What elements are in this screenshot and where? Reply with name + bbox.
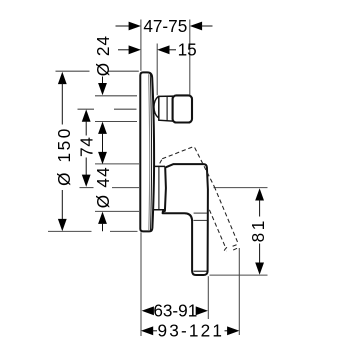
diverter knob head <box>173 95 192 122</box>
extension line: body top (y=163.9) <box>95 163 139 165</box>
diverter knob cylinder <box>159 96 173 121</box>
svg-text:15: 15 <box>178 40 197 60</box>
extension line: plate front going down (x=141) <box>140 232 142 336</box>
plate dome highlight line <box>150 74 151 231</box>
cylinder seam <box>166 96 168 121</box>
dimension Ø44 (vertical, rotated text) <box>98 152 107 231</box>
svg-text:Ø 44: Ø 44 <box>93 166 113 208</box>
extension line: plate front face (top, x=140.9) <box>48 20 268 337</box>
extension line: body bottom (y=211.4) <box>95 210 139 212</box>
dimension 63-91 <box>142 306 208 315</box>
handle body with lever (actual position, pointing down) <box>163 164 208 275</box>
extension line: dashed lever tip down (x=239.3) <box>238 248 240 335</box>
diverter knob neck <box>154 96 158 117</box>
extension line: knob bottom (y=121.5) <box>95 121 137 123</box>
lever end seam <box>194 270 208 272</box>
extension line: lever bottom (y=273.5) <box>210 274 268 276</box>
dashed outline: handle rotated position <box>160 147 240 252</box>
extension line: lever right edge down (x=208.3) <box>207 276 209 319</box>
fillet highlight <box>185 214 191 221</box>
extension line: knob neck front (x=157.2) <box>156 44 158 96</box>
escutcheon plate (side profile) <box>140 72 154 231</box>
svg-text:74: 74 <box>76 136 96 157</box>
svg-text:63-91: 63-91 <box>153 301 197 321</box>
extension line: knob top (y=95.8) <box>95 95 137 97</box>
axis line: handle axis left (y=187.6) <box>80 187 94 189</box>
extension line: plate top (y=71.2) <box>56 70 90 72</box>
svg-text:47-75: 47-75 <box>143 16 187 36</box>
dimension 81 (vertical, rotated text) <box>255 188 264 275</box>
axis line: handle axis right / 81 top extension <box>214 187 268 189</box>
dimension Ø24 (vertical, rotated text) <box>98 77 107 153</box>
dimension 93-121 <box>141 326 240 335</box>
dimension 74 (vertical, rotated text) <box>82 109 91 186</box>
cartridge sleeve <box>154 166 166 209</box>
dimension Ø150 (vertical, rotated text) <box>58 72 67 231</box>
extension line: knob outer face (x=189.8) <box>189 20 191 96</box>
lever seam lines <box>194 212 208 214</box>
svg-text:Ø 24: Ø 24 <box>93 35 113 76</box>
axis line: knob axis (y=109.2) <box>78 108 95 110</box>
svg-text:93-121: 93-121 <box>157 321 224 341</box>
dimension 47-75 <box>116 22 213 31</box>
svg-text:81: 81 <box>248 218 268 242</box>
dimension 15 <box>118 45 176 54</box>
svg-text:Ø 150: Ø 150 <box>54 126 74 186</box>
extension line: plate bottom (y=231.4) <box>48 230 92 232</box>
plate dome second highlight <box>149 74 150 230</box>
sleeve seam <box>158 167 160 210</box>
